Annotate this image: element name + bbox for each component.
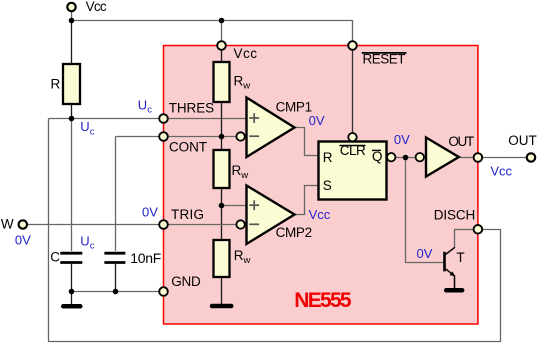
svg-text:NE555: NE555 <box>294 289 352 312</box>
wire CONT to 10nF <box>115 137 117 252</box>
svg-text:GND: GND <box>171 274 201 289</box>
resistor Rw1 <box>214 62 230 102</box>
node CMP2 minus bubble <box>236 220 244 228</box>
svg-text:THRES: THRES <box>169 100 214 115</box>
junction Vcc rail / Vcc pin <box>219 18 225 24</box>
svg-text:Vcc: Vcc <box>86 0 107 14</box>
svg-text:C: C <box>50 250 60 265</box>
wire divider middle <box>221 188 223 240</box>
svg-text:0V: 0V <box>142 204 158 219</box>
ground under C <box>63 304 80 309</box>
pin Vcc <box>217 41 226 50</box>
wire GND net <box>72 291 164 293</box>
pin CONT <box>159 132 168 141</box>
svg-text:CMP2: CMP2 <box>276 225 313 240</box>
junction divider / CMP2 plus <box>219 203 225 209</box>
svg-text:0V: 0V <box>15 233 31 248</box>
wire Q to buffer <box>394 157 417 159</box>
svg-text:CMP1: CMP1 <box>276 100 313 115</box>
svg-text:CONT: CONT <box>169 140 207 155</box>
node CMP1 minus bubble <box>236 132 244 140</box>
wire Vcc to R top <box>71 21 73 65</box>
junction CONT / divider <box>219 134 225 140</box>
resistor Rw2 <box>214 150 230 188</box>
pin OUT <box>474 153 483 162</box>
svg-text:R: R <box>323 150 333 165</box>
wire THRES net <box>49 118 247 120</box>
svg-text:S: S <box>323 178 332 193</box>
ground under divider <box>212 304 231 309</box>
svg-text:0V: 0V <box>417 246 433 261</box>
node CLR bubble <box>348 133 356 141</box>
svg-text:OUT: OUT <box>448 134 474 149</box>
junction Q node <box>403 155 409 161</box>
capacitor C <box>60 252 82 255</box>
resistor Rw3 <box>214 240 230 277</box>
junction Vcc rail / R <box>69 18 75 24</box>
svg-text:R: R <box>51 76 61 91</box>
svg-text:Vcc: Vcc <box>234 46 258 61</box>
node Q bubble <box>387 153 395 161</box>
svg-text:TRIG: TRIG <box>171 207 204 222</box>
pin GND <box>159 287 168 296</box>
wire 10nF bottom <box>115 264 117 292</box>
junction 10nF / GND <box>113 289 119 295</box>
wire outer feedback loop <box>49 119 501 342</box>
svg-text:0V: 0V <box>309 113 325 128</box>
svg-text:10nF: 10nF <box>130 250 161 266</box>
ground under transistor <box>446 288 462 293</box>
wire Vcc rail top <box>72 7 353 46</box>
capacitor 10nF <box>104 252 125 255</box>
svg-text:DISCH: DISCH <box>434 208 475 223</box>
junction C / GND <box>69 289 75 295</box>
terminal Vcc <box>67 3 75 11</box>
IC body NE555 (pink box) <box>164 46 478 325</box>
wire divider tap to CMP2 plus <box>222 205 247 207</box>
wire Q node to transistor base <box>406 158 444 263</box>
wire DISCH to collector <box>455 230 478 249</box>
wire THRES node down to C <box>71 119 73 252</box>
wire CONT net <box>116 136 241 138</box>
op-amp CMP2 <box>247 186 295 245</box>
svg-text:Vcc: Vcc <box>309 207 331 222</box>
wire rail drop to Vcc pin <box>221 21 223 46</box>
wire TRIG net <box>23 224 237 226</box>
node buffer input bubble <box>416 153 424 161</box>
svg-text:W: W <box>1 217 14 232</box>
wire RESET to CLR <box>352 46 354 134</box>
transistor T <box>443 252 446 272</box>
terminal W <box>19 220 27 228</box>
svg-text:0V: 0V <box>394 132 410 147</box>
buffer amplifier <box>426 138 459 177</box>
svg-text:RESET: RESET <box>363 52 406 67</box>
wire R bottom to C <box>71 104 73 119</box>
wire Vcc pin to Rw1 <box>221 46 223 63</box>
pin TRIG <box>159 220 168 229</box>
svg-text:T: T <box>456 250 464 265</box>
pin RESET <box>348 41 357 50</box>
svg-text:OUT: OUT <box>508 133 537 148</box>
wire CMP2 out to S input <box>295 186 319 215</box>
wire CMP1 out to R input <box>295 128 319 156</box>
wire buffer out to OUT pin and terminal <box>459 157 531 159</box>
junction THRES node <box>69 116 75 122</box>
terminal OUT <box>527 153 535 161</box>
wire Rw3 to ground <box>221 277 223 304</box>
wire divider top <box>221 102 223 150</box>
wire C bottom to ground <box>71 264 73 305</box>
resistor R <box>63 64 80 104</box>
op-amp CMP1 <box>247 98 295 158</box>
latch U1 (SR flip-flop) <box>319 142 387 200</box>
pin DISCH <box>474 225 483 234</box>
pin THRES <box>159 114 168 123</box>
svg-text:Vcc: Vcc <box>490 164 512 179</box>
